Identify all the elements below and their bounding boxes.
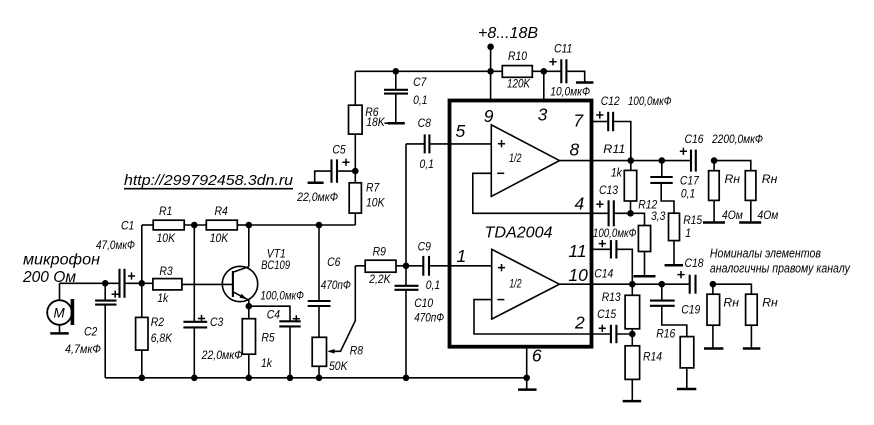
svg-text:C5: C5 <box>332 143 345 157</box>
node rail/R5 <box>246 375 253 382</box>
wire after C1 to R3 <box>125 282 153 284</box>
svg-text:0,1: 0,1 <box>420 157 434 171</box>
svg-text:8: 8 <box>570 139 580 159</box>
ground (R14) <box>623 400 642 403</box>
ground (pin 6) <box>518 378 537 390</box>
svg-text:0,1: 0,1 <box>413 93 427 107</box>
ground (R12) <box>634 275 656 278</box>
node mic/C2 junction <box>102 280 109 287</box>
svg-text:4: 4 <box>575 194 585 214</box>
capacitor C4 100,0мкФ <box>249 289 304 378</box>
capacitor C3 22,0мкФ <box>183 225 242 378</box>
svg-text:6: 6 <box>532 346 542 366</box>
svg-text:C3: C3 <box>210 315 223 329</box>
svg-text:Rн: Rн <box>762 172 778 186</box>
capacitor C12 100,0мкФ <box>596 94 672 161</box>
svg-text:+8...18В: +8...18В <box>478 25 538 42</box>
label http link <box>124 172 294 189</box>
resistor R15 1 <box>669 213 703 265</box>
resistor Rн (right channel top B) <box>745 171 779 223</box>
capacitor C7 0,1 <box>384 71 428 122</box>
svg-text:R9: R9 <box>373 244 386 258</box>
ground (Rн top A) <box>703 221 725 224</box>
resistor R6 18K <box>349 71 390 171</box>
svg-text:C17: C17 <box>680 174 700 188</box>
svg-text:R3: R3 <box>159 264 172 278</box>
node rail/C10 <box>403 375 410 382</box>
svg-text:R4: R4 <box>215 204 228 218</box>
svg-text:Rн: Rн <box>723 295 739 309</box>
wire pin 10 output line <box>559 283 689 285</box>
svg-text:Rн: Rн <box>762 295 778 309</box>
resistor R2 6,8K <box>136 315 173 378</box>
svg-text:4Ом: 4Ом <box>722 208 743 222</box>
capacitor C11 10,0мкФ <box>549 41 590 98</box>
svg-text:470пФ: 470пФ <box>321 278 351 292</box>
node pin10/load <box>710 281 717 288</box>
capacitor C17 0,1 <box>650 161 700 214</box>
potentiometer R8 50K <box>312 337 363 378</box>
svg-text:R2: R2 <box>151 315 164 329</box>
svg-text:C14: C14 <box>594 267 613 281</box>
microphone M1 <box>47 299 74 325</box>
node C6 tap <box>316 222 323 229</box>
node rail/R8 <box>316 375 323 382</box>
svg-text:C9: C9 <box>418 240 431 254</box>
capacitor C15 <box>597 307 632 343</box>
wire pin 8 output line <box>560 160 692 162</box>
svg-text:11: 11 <box>568 241 586 261</box>
ground (R15) <box>665 264 684 267</box>
svg-text:C13: C13 <box>599 183 618 197</box>
power terminal +8...18В <box>478 25 538 71</box>
node C1/R1/R2/R3 <box>139 280 146 287</box>
node rail/C4 <box>287 375 294 382</box>
svg-text:C7: C7 <box>413 75 427 89</box>
wire pin 11 <box>593 248 611 250</box>
node rail/C3 <box>191 375 198 382</box>
node supply/pin9 <box>487 68 494 75</box>
IC U1 TDA2004 body <box>450 101 592 347</box>
resistor R1 10K <box>142 204 207 245</box>
resistor R5 1k <box>242 319 275 378</box>
resistor R11 1k <box>603 142 636 213</box>
capacitor C2 4,7мкФ <box>65 283 119 378</box>
svg-text:Rн: Rн <box>725 172 741 186</box>
svg-text:C12: C12 <box>601 94 620 108</box>
node pin8/load <box>711 157 718 164</box>
wire top supply rail <box>355 70 502 72</box>
note: Номиналы элементов аналогичны правому каналу <box>710 247 851 276</box>
svg-text:470пФ: 470пФ <box>414 310 444 324</box>
resistor R7 10K <box>349 171 385 225</box>
node pin10/C19 <box>659 281 666 288</box>
node collector/R4 <box>246 222 253 229</box>
node pin4/C13/R11/R12 <box>627 210 634 217</box>
svg-text:2: 2 <box>574 313 585 333</box>
svg-text:Номиналы элементов: Номиналы элементов <box>710 247 821 261</box>
wire input to C1 <box>60 282 120 284</box>
resistor R4 10K <box>206 204 249 245</box>
resistor Rн (left channel bottom A) <box>707 284 739 348</box>
svg-text:2200,0мкФ: 2200,0мкФ <box>711 132 763 146</box>
svg-text:100,0мкФ: 100,0мкФ <box>628 94 672 108</box>
node rail/pin6 <box>523 375 530 382</box>
node pin8/C17 <box>659 157 666 164</box>
node C5/R6/R7 <box>352 168 359 175</box>
svg-text:120K: 120K <box>507 76 531 90</box>
svg-text:C8: C8 <box>418 116 431 130</box>
wire pin 3 riser <box>543 71 545 102</box>
ground (microphone) <box>50 325 69 334</box>
svg-text:7: 7 <box>573 110 584 130</box>
wire pin 6 to ground rail <box>526 347 528 378</box>
svg-text:3: 3 <box>538 104 548 124</box>
capacitor C10 470пФ <box>395 266 445 378</box>
svg-text:2,2K: 2,2K <box>368 272 391 286</box>
svg-text:C18: C18 <box>685 256 704 270</box>
wire collector line <box>249 224 355 226</box>
svg-text:1: 1 <box>457 246 467 266</box>
node C7 tap <box>393 68 400 75</box>
ground (R16) <box>677 388 696 391</box>
svg-text:C4: C4 <box>267 308 280 322</box>
svg-text:BC109: BC109 <box>261 258 290 272</box>
wire to second load resistor (bottom) <box>713 284 752 294</box>
svg-text:R8: R8 <box>350 344 363 358</box>
svg-text:4,7мкФ: 4,7мкФ <box>65 342 101 356</box>
svg-text:R15: R15 <box>683 213 702 227</box>
svg-text:http://299792458.3dn.ru: http://299792458.3dn.ru <box>124 172 294 189</box>
svg-text:R1: R1 <box>159 204 172 218</box>
svg-text:TDA2004: TDA2004 <box>485 225 553 242</box>
svg-text:1/2: 1/2 <box>509 279 522 291</box>
svg-text:10: 10 <box>568 265 588 285</box>
svg-text:0,1: 0,1 <box>426 278 440 292</box>
resistor Rн (right channel top A) <box>709 161 744 223</box>
capacitor C19 <box>650 284 701 336</box>
svg-text:10,0мкФ: 10,0мкФ <box>550 85 590 99</box>
resistor R13 <box>602 284 640 334</box>
ground (C7) <box>388 122 405 125</box>
wire pin 5 input <box>429 143 491 145</box>
svg-text:микрофон: микрофон <box>23 252 100 269</box>
capacitor C9 0,1 <box>406 240 440 293</box>
capacitor C18 <box>677 256 703 294</box>
node R10/C11/pin3 <box>541 68 548 75</box>
wire pin 1 input <box>429 265 492 267</box>
svg-text:100,0мкФ: 100,0мкФ <box>593 226 637 240</box>
svg-text:3,3: 3,3 <box>651 209 666 223</box>
wire R9 to R8 wiper (arrow) <box>327 266 355 354</box>
svg-text:аналогичны правому каналу: аналогичны правому каналу <box>710 261 851 275</box>
svg-text:C11: C11 <box>554 41 572 55</box>
wire mic riser <box>59 283 61 300</box>
svg-text:1k: 1k <box>261 356 273 370</box>
resistor R3 1k <box>153 264 233 305</box>
capacitor C13 100,0мкФ <box>593 183 637 240</box>
resistor R12 3,3 <box>631 198 666 276</box>
svg-text:22,0мкФ: 22,0мкФ <box>201 348 243 362</box>
svg-text:C15: C15 <box>597 307 616 321</box>
capacitor C1 47,0мкФ <box>96 219 135 298</box>
resistor R10 120K <box>502 49 561 90</box>
wire U1B feedback to pin 2 <box>474 300 611 334</box>
transistor VT1 BC109 <box>222 225 290 319</box>
svg-text:1k: 1k <box>611 165 623 179</box>
op-amp U1B (1/2) <box>492 249 560 319</box>
svg-text:100,0мкФ: 100,0мкФ <box>260 289 304 303</box>
resistor Rн (left channel bottom B) <box>746 294 778 348</box>
node pin2/R13/R14 <box>629 331 636 338</box>
svg-text:1: 1 <box>685 226 691 240</box>
wire to second load resistor (top) <box>714 161 751 171</box>
svg-text:50K: 50K <box>329 359 348 373</box>
svg-text:6,8K: 6,8K <box>151 331 173 345</box>
node emitter/R5/C4 <box>246 303 253 310</box>
svg-text:R11: R11 <box>603 142 625 156</box>
svg-text:C1: C1 <box>121 219 134 233</box>
svg-text:10K: 10K <box>157 231 176 245</box>
svg-text:10K: 10K <box>210 231 229 245</box>
svg-text:R10: R10 <box>508 49 527 63</box>
svg-text:C10: C10 <box>414 296 433 310</box>
capacitor C8 0,1 <box>406 116 434 171</box>
wire bottom ground rail <box>105 377 527 379</box>
svg-text:0,1: 0,1 <box>681 187 695 201</box>
svg-text:C19: C19 <box>681 303 700 317</box>
capacitor C5 22,0мкФ <box>296 143 355 204</box>
ground (Rн top B) <box>739 221 761 224</box>
svg-text:C6: C6 <box>327 255 340 269</box>
svg-text:R7: R7 <box>366 181 380 195</box>
svg-text:R5: R5 <box>261 331 274 345</box>
svg-text:10K: 10K <box>366 195 385 209</box>
ground (Rн bottom A) <box>704 347 723 350</box>
ground (C11) <box>576 81 594 84</box>
svg-text:1k: 1k <box>157 291 169 305</box>
svg-text:9: 9 <box>484 106 494 126</box>
svg-text:C2: C2 <box>84 325 97 339</box>
op-amp U1A (1/2) <box>491 125 559 197</box>
svg-text:C16: C16 <box>685 132 704 146</box>
wire C1 node column <box>141 225 143 317</box>
capacitor C14 100,0мкФ <box>594 240 632 284</box>
resistor R16 <box>656 326 694 388</box>
node C8/C9/R9/C10 <box>403 263 410 270</box>
wire U1A feedback to pin 4 <box>473 173 609 213</box>
svg-text:1/2: 1/2 <box>509 153 522 165</box>
wire pin 7 <box>593 121 609 123</box>
svg-text:22,0мкФ: 22,0мкФ <box>296 190 338 204</box>
svg-text:R13: R13 <box>602 290 621 304</box>
svg-text:18K: 18K <box>366 115 385 129</box>
svg-text:R16: R16 <box>656 326 675 340</box>
ground (C5) <box>308 181 324 184</box>
resistor R14 <box>625 334 662 401</box>
svg-text:R14: R14 <box>643 350 662 364</box>
resistor R9 2,2K <box>355 244 406 286</box>
capacitor C16 2200,0мкФ <box>680 132 763 172</box>
wire pin 9 riser <box>490 71 492 102</box>
svg-text:5: 5 <box>456 121 466 141</box>
node rail/R2 <box>139 375 146 382</box>
ground (Rн bottom B) <box>743 347 761 350</box>
wire C8 riser <box>405 144 407 266</box>
node pin10/C14/R13 <box>629 281 636 288</box>
svg-text:4Ом: 4Ом <box>758 208 779 222</box>
node R1/R4/C3 <box>191 222 198 229</box>
node pin8/C12/R11 <box>628 157 635 164</box>
svg-text:M: M <box>54 306 66 321</box>
capacitor C6 470пФ <box>308 225 351 337</box>
svg-text:47,0мкФ: 47,0мкФ <box>96 238 135 252</box>
